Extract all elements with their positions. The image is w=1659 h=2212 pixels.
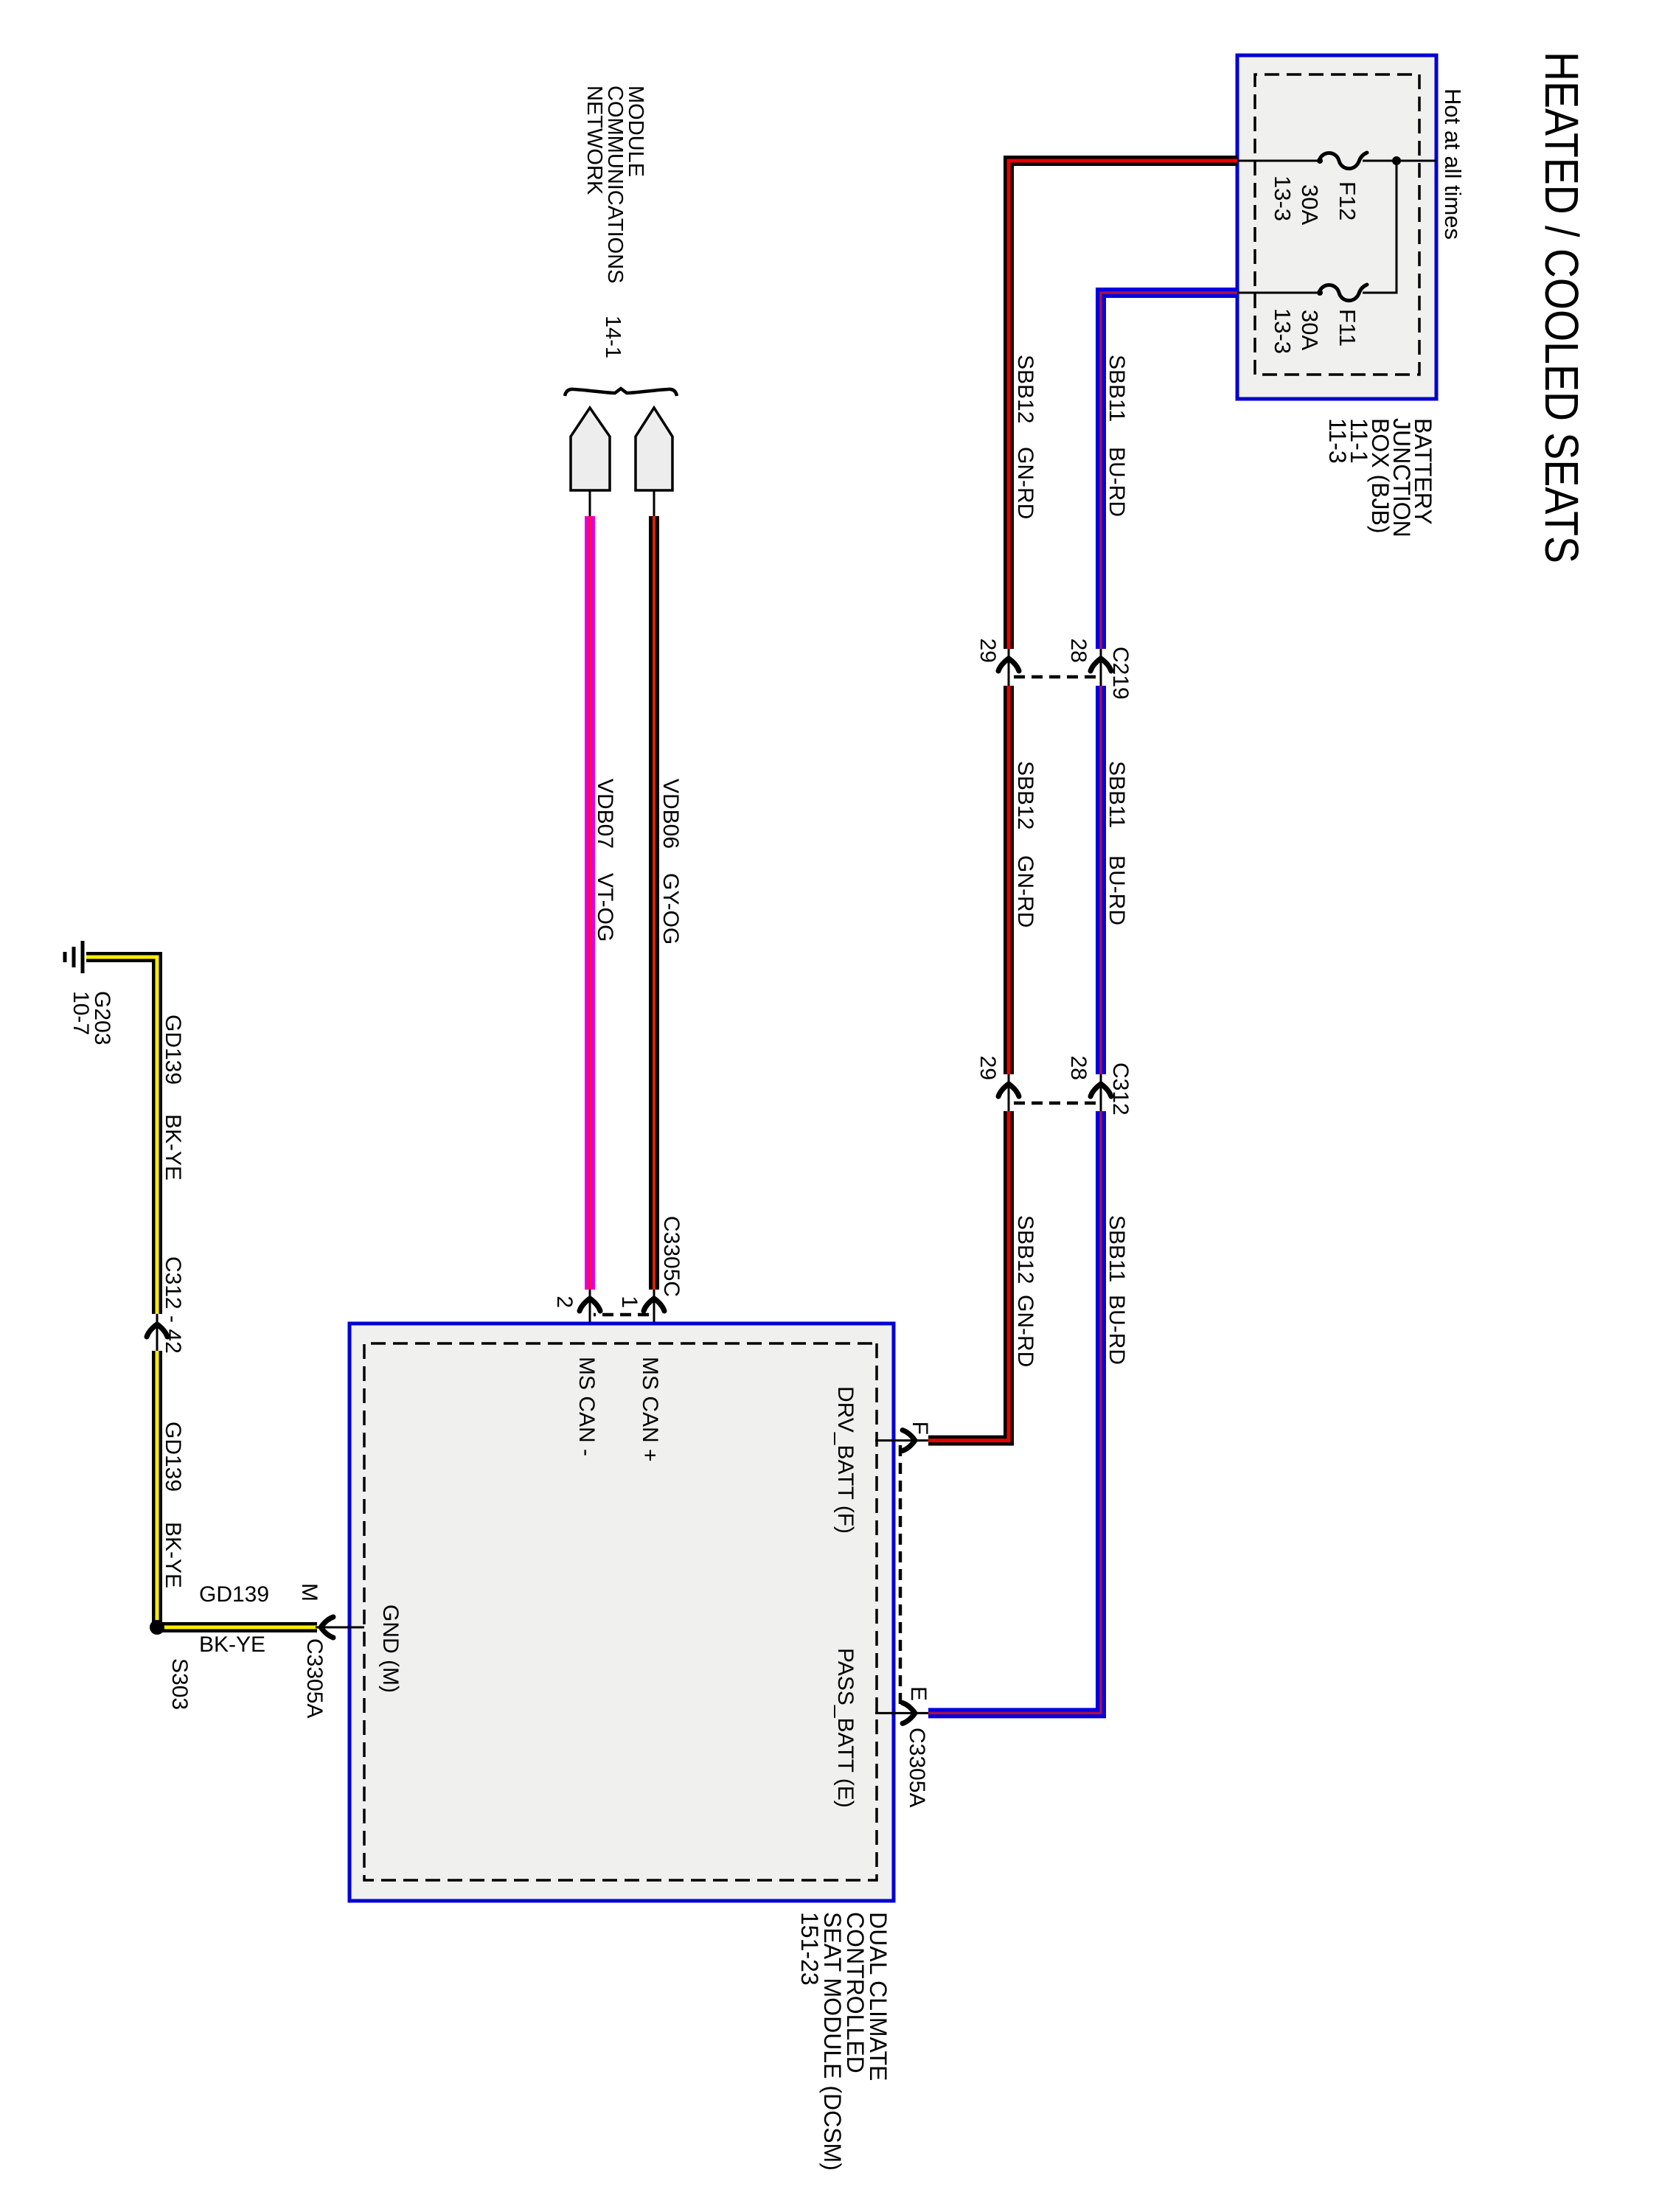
svg-text:DRV_BATT (F): DRV_BATT (F) (833, 1386, 858, 1534)
svg-text:1: 1 (617, 1295, 641, 1308)
DCSM inner dashed outline (364, 1343, 877, 1880)
label: GD139 BK-YE (ground segment 1) (161, 1015, 185, 1180)
svg-text:BU-RD: BU-RD (1105, 1295, 1129, 1365)
label: SBB11 BU-RD (segment 1) (1105, 355, 1129, 517)
svg-text:VDB06: VDB06 (658, 779, 683, 849)
wire GD139 BK-YE from C312-42 to splice S303 (152, 1351, 162, 1627)
wire SBB11 BU-RD segment 3 (C312 to PASS_BATT pin) (928, 1111, 1101, 1713)
off-page connector (network, VDB07) (571, 408, 610, 490)
svg-text:NETWORK: NETWORK (582, 86, 606, 195)
connector C219 dashed link (1012, 675, 1096, 679)
connector arrow pin F (DRV_BATT) (902, 1430, 915, 1451)
svg-text:F11: F11 (1335, 309, 1360, 347)
svg-text:SBB12: SBB12 (1013, 761, 1037, 829)
svg-text:BU-RD: BU-RD (1105, 447, 1129, 517)
wire GD139 BK-YE from ground to C312-42 (86, 957, 157, 1314)
wire GD139 BK-YE from splice S303 to GND pin M (157, 1622, 317, 1632)
node: fuse bus junction dot (1392, 156, 1401, 165)
label: F11 30A 13-3 (1270, 308, 1360, 354)
svg-text:10-7: 10-7 (69, 991, 93, 1035)
fuse F12 30A (1319, 153, 1367, 169)
connector C312-42 arrow (147, 1324, 167, 1337)
svg-text:28: 28 (1066, 1056, 1091, 1080)
connector C219 arrow on SBB12 (998, 658, 1019, 671)
label: VDB07 VT-OG (593, 779, 617, 942)
svg-text:BK-YE: BK-YE (161, 1114, 185, 1180)
svg-text:VT-OG: VT-OG (593, 873, 617, 942)
svg-text:GN-RD: GN-RD (1013, 1295, 1037, 1367)
svg-text:F: F (908, 1422, 932, 1435)
wire VDB06 GY-OG (MS CAN +) (649, 516, 659, 1290)
svg-text:MODULE: MODULE (624, 86, 647, 177)
svg-text:HEATED / COOLED SEATS: HEATED / COOLED SEATS (1535, 52, 1588, 563)
label: F12 30A 13-3 (1270, 175, 1360, 225)
battery junction box (BJB) outline (1237, 55, 1436, 399)
svg-text:GND (M): GND (M) (378, 1604, 403, 1693)
svg-text:151-23: 151-23 (796, 1912, 823, 1986)
ground symbol G203 (65, 941, 83, 973)
svg-text:C3305A: C3305A (905, 1728, 929, 1807)
label: SBB12 GN-RD (segment 2) (1013, 761, 1037, 928)
connector C219 arrow on SBB11 (1091, 658, 1111, 671)
svg-text:GD139: GD139 (161, 1422, 185, 1492)
splice S303 (150, 1620, 164, 1635)
svg-text:13-3: 13-3 (1270, 175, 1295, 221)
label: SBB12 GN-RD (segment 1) (1013, 355, 1037, 519)
wire SBB12 GN-RD segment 1 (BJB to C219) (1009, 161, 1237, 649)
svg-text:C3305A: C3305A (302, 1638, 327, 1718)
connector arrow pin M (GND) (321, 1617, 333, 1638)
connector C312-42 pass-through line (156, 1314, 159, 1351)
svg-text:MS CAN -: MS CAN - (574, 1357, 599, 1456)
connector C219: pass-through lines (1009, 649, 1101, 686)
svg-text:E: E (906, 1686, 931, 1701)
svg-text:CONTROLLED: CONTROLLED (842, 1912, 869, 2073)
label: SBB11 BU-RD (segment 3) (1105, 1215, 1129, 1365)
svg-text:SBB12: SBB12 (1013, 355, 1037, 423)
svg-text:F12: F12 (1335, 181, 1360, 220)
svg-text:14-1: 14-1 (601, 316, 625, 358)
svg-text:BU-RD: BU-RD (1105, 855, 1129, 925)
wire SBB12 GN-RD segment 3 (C312 to DRV_BATT pin) (928, 1111, 1009, 1441)
svg-text:COMMUNICATIONS: COMMUNICATIONS (603, 86, 627, 284)
svg-text:C312 - 42: C312 - 42 (161, 1256, 185, 1354)
connector arrow pin E (PASS_BATT) (902, 1703, 915, 1723)
svg-text:2: 2 (552, 1295, 577, 1308)
connector C3305A dashed link (F to E) (899, 1445, 902, 1708)
wire SBB12 GN-RD segment 2 (C219 to C312) (1004, 686, 1014, 1074)
wire: fuse bus to F11 (1363, 161, 1397, 293)
BJB inner dashed outline (1255, 74, 1419, 375)
svg-text:29: 29 (975, 639, 1000, 663)
label: VDB06 GY-OG (658, 779, 683, 945)
svg-text:GY-OG: GY-OG (658, 873, 683, 945)
label: SBB12 GN-RD (segment 3) (1013, 1215, 1037, 1367)
fuse F11 30A (1319, 285, 1367, 301)
label: GD139 BK-YE (ground segment 2) (161, 1422, 185, 1588)
connector C312: pass-through lines (1009, 1074, 1101, 1111)
pin E pass-through line (875, 1712, 928, 1714)
connector C3305C dashed link (594, 1313, 649, 1317)
svg-text:SBB11: SBB11 (1105, 1215, 1129, 1282)
wire VDB07 VT-OG (MS CAN -) (585, 516, 595, 1290)
svg-text:29: 29 (975, 1056, 1000, 1080)
connector C3305C pass-through lines (590, 1290, 654, 1343)
label: G203 10-7 (69, 991, 114, 1045)
svg-text:SBB11: SBB11 (1105, 761, 1129, 828)
svg-text:GD139: GD139 (199, 1582, 269, 1607)
wire SBB11 BU-RD segment 1 (BJB to C219) (1101, 293, 1237, 649)
connector C312 arrow on SBB12 (998, 1084, 1019, 1096)
brace for network wires (565, 389, 677, 396)
wire SBB11 BU-RD segment 2 (C219 to C312) (1096, 686, 1106, 1074)
svg-text:S303: S303 (167, 1658, 192, 1710)
svg-text:13-3: 13-3 (1270, 308, 1295, 354)
svg-text:GN-RD: GN-RD (1013, 447, 1037, 519)
label: MODULE COMMUNICATIONS NETWORK (582, 86, 647, 284)
label: BATTERY JUNCTION BOX (BJB) 11-1 11-3 (1324, 418, 1436, 538)
svg-text:PASS_BATT (E): PASS_BATT (E) (833, 1648, 858, 1808)
wire: hot feed from box edge to fuse bus (1363, 160, 1436, 162)
pin F pass-through line (875, 1439, 928, 1441)
svg-text:SBB11: SBB11 (1105, 355, 1129, 422)
svg-text:BK-YE: BK-YE (199, 1632, 265, 1657)
svg-text:G203: G203 (90, 991, 114, 1045)
svg-text:DUAL CLIMATE: DUAL CLIMATE (865, 1912, 891, 2081)
wire: F12 lower lead (1237, 160, 1321, 162)
wire: F11 lower lead (1237, 292, 1321, 294)
svg-text:MS CAN +: MS CAN + (638, 1357, 662, 1462)
svg-text:GD139: GD139 (161, 1015, 185, 1085)
label: SBB11 BU-RD (segment 2) (1105, 761, 1129, 925)
wire stub from off-page connector VDB06 (653, 490, 655, 518)
svg-text:VDB07: VDB07 (593, 779, 617, 849)
svg-text:30A: 30A (1297, 310, 1323, 350)
svg-text:M: M (297, 1583, 321, 1601)
svg-text:BK-YE: BK-YE (161, 1522, 185, 1588)
svg-text:28: 28 (1066, 639, 1091, 663)
svg-text:SBB12: SBB12 (1013, 1215, 1037, 1284)
connector C312 dashed link (1012, 1102, 1096, 1105)
svg-text:C3305C: C3305C (659, 1216, 684, 1297)
svg-text:30A: 30A (1297, 184, 1323, 225)
svg-text:SEAT MODULE (DCSM): SEAT MODULE (DCSM) (819, 1912, 846, 2171)
connector arrow pin 1 (MS CAN +) (644, 1298, 664, 1311)
wire stub from off-page connector VDB07 (589, 490, 591, 518)
svg-text:C219: C219 (1108, 647, 1133, 700)
svg-text:C312: C312 (1108, 1062, 1133, 1116)
pin M pass-through line (316, 1627, 364, 1629)
svg-text:GN-RD: GN-RD (1013, 855, 1037, 928)
dual climate controlled seat module (DCSM) box (349, 1324, 894, 1901)
connector arrow pin 2 (MS CAN -) (580, 1298, 600, 1311)
label: DUAL CLIMATE CONTROLLED SEAT MODULE (DCSM) 151-23 (796, 1912, 891, 2171)
svg-text:Hot at all times: Hot at all times (1440, 88, 1466, 240)
off-page connector (network, VDB06) (636, 408, 672, 490)
connector C312 arrow on SBB11 (1091, 1084, 1111, 1096)
svg-text:11-3: 11-3 (1324, 418, 1351, 464)
